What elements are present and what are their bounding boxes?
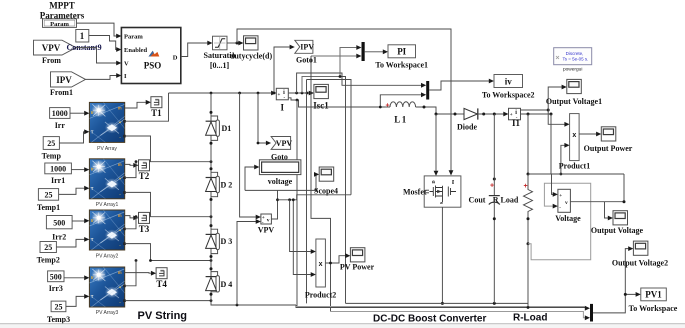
constant Irr3 500: [48, 271, 64, 293]
svg-text:25: 25: [47, 139, 55, 148]
svg-text:500: 500: [53, 218, 65, 227]
mux Mux2 for iv: [426, 81, 429, 100]
product block Product1: [559, 114, 590, 171]
svg-text:Temp3: Temp3: [47, 315, 70, 324]
wire PV string top bus into I: [169, 91, 277, 96]
mux Mux3 (bottom right): [590, 304, 593, 322]
wire R load bottom around to Voltage minus loop: [528, 183, 591, 260]
wire mux3 output to PV1 and Output Voltage2: [593, 246, 641, 313]
svg-text:IPV: IPV: [300, 43, 314, 52]
powergui block: [554, 48, 592, 73]
current measurement I1: [509, 108, 521, 128]
svg-text:D 4: D 4: [221, 280, 233, 289]
scope Output Voltage2: [612, 241, 668, 268]
svg-text:PV Array3: PV Array3: [96, 310, 119, 316]
svg-text:25: 25: [55, 302, 63, 311]
wire Saturation to dutycycle scope with branch up: [227, 41, 244, 46]
svg-text:1000: 1000: [50, 164, 66, 173]
wire mux2 to iv workspace: [429, 79, 494, 90]
wire Temp to row1: [59, 129, 89, 143]
pv array row2: [89, 159, 125, 208]
svg-text:V: V: [124, 61, 129, 68]
constant Temp 25: [42, 137, 62, 161]
svg-text:T2: T2: [139, 171, 150, 181]
wire row2 m to T2: [125, 163, 139, 168]
pv array row4: [89, 267, 125, 316]
wire VPV From to PSO V: [76, 48, 121, 66]
capacitor Cout: [469, 114, 500, 303]
svg-text:Output Power: Output Power: [584, 144, 633, 153]
wire current tap to Goto1: [274, 45, 295, 93]
wire Irr to row1: [70, 111, 89, 116]
from tag Param: [43, 19, 77, 28]
wire duty signal long run to mosfet gate: [237, 29, 453, 176]
svg-text:Temp: Temp: [42, 152, 62, 161]
svg-text:Voltage: Voltage: [555, 214, 581, 223]
svg-text:dutycycle(d): dutycycle(d): [230, 52, 273, 61]
wire branch I to mux1 input2 and long drop: [311, 56, 357, 312]
wire row1 minus to junction1: [125, 136, 213, 163]
tag block T4: [156, 268, 167, 289]
svg-text:R-Load: R-Load: [513, 313, 547, 324]
wire row4 plus up to junction3: [125, 261, 136, 286]
svg-text:1: 1: [80, 31, 85, 41]
wire IPV From1 to PSO I: [86, 73, 122, 79]
scope Output Voltage1: [546, 79, 602, 105]
wire row2 minus to junction2: [125, 192, 213, 218]
constant Irr1 1000: [45, 163, 72, 185]
wire v net to display: [245, 165, 259, 191]
svg-text:x: x: [572, 132, 576, 139]
from tag VPV (From): [34, 40, 77, 65]
wire row4 minus to bottom rail: [125, 299, 213, 302]
svg-text:IPV: IPV: [56, 75, 72, 85]
display voltage: [259, 160, 301, 186]
pv array row3: [89, 210, 125, 259]
wire row3 m to T3: [125, 216, 139, 221]
svg-text:Output Voltage2: Output Voltage2: [612, 259, 668, 268]
svg-text:Discrete,: Discrete,: [566, 51, 584, 56]
wire Product2 output to PV Power: [325, 253, 350, 264]
wire PSO D to Saturation: [181, 41, 213, 57]
svg-text:25: 25: [45, 190, 53, 199]
svg-text:Enabled: Enabled: [124, 47, 148, 54]
svg-text:m: m: [450, 180, 455, 184]
wire load top net: [528, 174, 624, 197]
diode D3: [206, 224, 233, 258]
wire row1 plus to top bus: [125, 93, 169, 121]
svg-text:VPV: VPV: [42, 43, 61, 53]
svg-text:25: 25: [44, 243, 52, 252]
wire diode cathode to I1: [478, 112, 509, 117]
svg-text:+: +: [524, 183, 528, 190]
wire v branch down to Product2 input1: [290, 200, 316, 254]
wire Param to PSO: [77, 23, 122, 38]
svg-text:PV Power: PV Power: [340, 263, 375, 272]
voltage measurement Voltage: [555, 189, 581, 223]
svg-text:Mosfet: Mosfet: [403, 188, 427, 197]
annotation MPPT Parameters: [40, 1, 85, 21]
svg-text:PI: PI: [397, 47, 406, 57]
wire mux1 to PI workspace: [365, 49, 388, 54]
wire to Product1 input1: [548, 110, 569, 127]
to-workspace iv (To Workspace2): [482, 75, 535, 100]
wire mosfet source down to ground rail: [441, 207, 444, 305]
wire I measurement output to Isc1: [289, 91, 314, 96]
wire power node down to mosfet drain: [434, 114, 439, 176]
inductor L1: [379, 102, 416, 125]
svg-text:iv: iv: [505, 76, 513, 86]
wire branch to boost ground rail: [339, 75, 346, 303]
pv array row1: [89, 102, 125, 151]
constant Temp1 25: [37, 189, 60, 213]
wire branch to Output Voltage scope: [605, 202, 614, 221]
svg-text:L1: L1: [394, 115, 408, 125]
svg-text:+: +: [559, 194, 562, 199]
wire v net to Scope4: [314, 172, 319, 192]
svg-text:PV Array1: PV Array1: [96, 202, 119, 208]
constant Irr 1000: [50, 108, 70, 130]
from tag IPV (From1): [50, 72, 86, 97]
to-workspace PV1 (To Workspace): [629, 288, 678, 313]
constant Temp2 25: [37, 242, 60, 265]
wire branch I to iv mux input1: [297, 73, 427, 93]
tag block T3: [139, 212, 150, 233]
svg-text:R Load: R Load: [493, 196, 519, 205]
svg-text:PSO: PSO: [144, 61, 162, 71]
svg-text:From1: From1: [50, 88, 73, 97]
wire to Output Voltage1 scope: [548, 85, 567, 110]
svg-text:Isc1: Isc1: [313, 101, 329, 111]
mux Mux1: [356, 42, 364, 61]
svg-text:Output Voltage1: Output Voltage1: [546, 97, 602, 106]
svg-text:+: +: [490, 183, 494, 190]
wire branch I to V net junction: [307, 80, 352, 304]
svg-text:I1: I1: [512, 118, 521, 128]
wire VPV v output up to v net: [245, 190, 316, 219]
diode D1: [206, 111, 232, 145]
wire row1 m to T1: [125, 100, 151, 108]
svg-text:MPPT: MPPT: [49, 1, 75, 11]
svg-text:From: From: [42, 56, 61, 65]
wire current branch down to Product2 input2: [292, 198, 316, 276]
wire Irr1 to row2: [71, 167, 89, 172]
svg-text:powergui: powergui: [563, 67, 582, 73]
svg-text:+: +: [386, 103, 390, 110]
goto tag IPV (Goto1): [295, 40, 317, 64]
svg-text:1000: 1000: [52, 109, 68, 118]
svg-text:T4: T4: [156, 279, 167, 289]
subsystem PSO: [121, 28, 180, 84]
wire v net lower branch: [278, 195, 352, 201]
svg-text:Goto1: Goto1: [296, 56, 317, 65]
wire row4 m to T4: [125, 271, 156, 276]
scope Output Voltage: [591, 211, 644, 235]
wire Irr3 to row4: [64, 275, 89, 280]
svg-text:500: 500: [50, 272, 62, 281]
tag block T2: [139, 160, 150, 181]
svg-text:Diode: Diode: [457, 123, 477, 132]
wire row3 plus up to junction2: [125, 217, 136, 229]
wire Temp2 to row3: [56, 237, 89, 247]
wire ground tap to VPV minus: [237, 219, 261, 305]
wire Irr2 to row3: [72, 218, 89, 223]
svg-text:Scope4: Scope4: [314, 187, 338, 196]
saturation block Saturatio [0...1]: [204, 36, 236, 70]
wire load net to Product1 input2: [560, 143, 570, 176]
svg-text:T1: T1: [151, 108, 162, 118]
goto tag VPV (Goto): [271, 137, 292, 162]
scope Output Power: [584, 127, 633, 153]
svg-text:Irr1: Irr1: [51, 176, 65, 185]
mosfet block Mosfet: [403, 176, 461, 207]
svg-text:VPV: VPV: [276, 139, 293, 148]
wire row3 minus to junction3: [125, 244, 213, 262]
wire power node to diode anode: [450, 113, 463, 116]
wire drop from physical minus to ground rail: [296, 100, 298, 308]
wire boost ground rail: [346, 302, 529, 305]
svg-text:Param: Param: [50, 21, 69, 28]
wire Temp1 to row2: [59, 186, 90, 195]
svg-text:PV Array2: PV Array2: [96, 253, 119, 259]
svg-text:Irr2: Irr2: [52, 232, 66, 241]
constant Irr2 500: [46, 216, 72, 242]
svg-text:To Workspace1: To Workspace1: [375, 61, 428, 70]
wire bus tap to Goto VPV: [257, 93, 272, 145]
svg-text:D 3: D 3: [221, 237, 233, 246]
tag block T1: [151, 97, 162, 118]
scope Isc1: [313, 84, 329, 110]
wire bus tap to VPV plus: [240, 93, 261, 219]
svg-text:Temp1: Temp1: [37, 203, 60, 212]
window bottom chrome: [0, 324, 685, 328]
svg-text:Output Voltage: Output Voltage: [591, 226, 644, 235]
wire L1 to power node: [416, 106, 451, 116]
svg-text:Param: Param: [124, 34, 143, 41]
svg-text:PV Array: PV Array: [97, 146, 117, 152]
svg-text:To Workspace2: To Workspace2: [482, 90, 535, 99]
wire Voltage v output to junction: [570, 174, 625, 203]
constant Temp3 25: [47, 301, 70, 324]
svg-text:T3: T3: [139, 224, 150, 234]
wire bypass diode string vertical bus: [211, 93, 296, 306]
current measurement I: [276, 88, 288, 112]
svg-text:D1: D1: [222, 124, 232, 133]
svg-text:Product1: Product1: [559, 162, 590, 171]
svg-text:Irr3: Irr3: [49, 284, 63, 293]
svg-text:voltage: voltage: [268, 177, 293, 186]
svg-text:Irr: Irr: [55, 121, 66, 130]
voltage measurement VPV: [258, 214, 275, 235]
wire branch I to mux1 input1: [302, 48, 357, 94]
svg-text:v: v: [565, 200, 568, 206]
product block Product2: [305, 239, 336, 300]
svg-text:VPV: VPV: [258, 226, 275, 235]
svg-text:Ts = 5e-05 s.: Ts = 5e-05 s.: [563, 57, 589, 62]
constant Constant9 value 1: [76, 30, 89, 43]
svg-text:Cout: Cout: [469, 196, 486, 205]
resistor R Load: [493, 173, 533, 246]
to-workspace PI (To Workspace1): [375, 45, 428, 70]
wire Product1 to Output Power: [579, 132, 601, 137]
svg-text:D: D: [173, 54, 178, 61]
svg-text:[0...1]: [0...1]: [210, 61, 230, 70]
wire output node down to load net: [550, 114, 552, 174]
svg-text:Temp2: Temp2: [37, 256, 60, 265]
wire I physical minus continuation to L1: [289, 98, 385, 107]
wire tap L1 node to iv mux input2: [380, 92, 426, 107]
wire bottom rail to mux3: [296, 305, 590, 311]
scope dutycycle(d): [230, 36, 273, 61]
wire Constant9 to PSO Enabled: [89, 36, 122, 52]
wire I1 out to output node: [521, 113, 553, 116]
diode D4: [206, 267, 233, 295]
svg-text:x: x: [319, 261, 323, 268]
svg-text:D 2: D 2: [221, 180, 233, 189]
svg-text:PV String: PV String: [138, 310, 188, 322]
wire R load top riser: [527, 114, 529, 174]
scope Scope4: [314, 167, 338, 196]
wire Product2 branch down to mux3 lower input: [331, 312, 591, 321]
svg-text:DC-DC Boost Converter: DC-DC Boost Converter: [373, 314, 486, 325]
wire Temp3 to row4: [66, 294, 90, 306]
scope PV Power: [340, 248, 375, 272]
diode Diode (boost): [457, 108, 478, 131]
svg-text:PV1: PV1: [645, 290, 662, 300]
wire R load bottom continues to rail: [527, 244, 530, 309]
diode D2: [206, 167, 233, 201]
svg-text:To Workspace: To Workspace: [629, 304, 678, 313]
svg-text:Product2: Product2: [305, 291, 336, 300]
wire row2 plus up to junction1: [125, 162, 136, 178]
wire I1 i output to scope node: [521, 108, 550, 111]
svg-text:I: I: [281, 103, 285, 113]
